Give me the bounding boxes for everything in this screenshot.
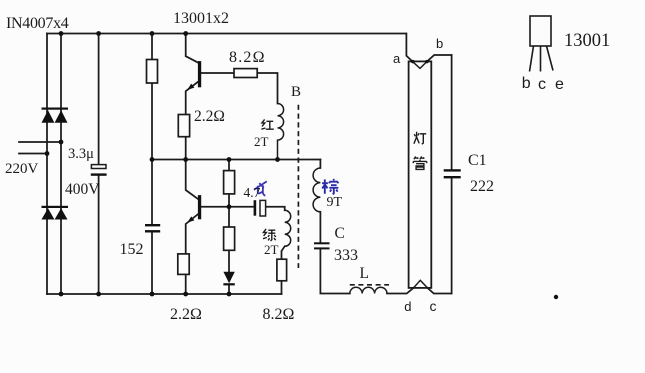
winding brown 9T xyxy=(313,168,320,212)
wire green winding to 8.2ohm resistor xyxy=(282,246,285,259)
resistor bias lower xyxy=(224,227,235,250)
wire startup resistor column xyxy=(151,34,153,295)
wire filter cap column xyxy=(98,34,100,295)
winding red 2T xyxy=(278,104,284,160)
wire bias divider column lower xyxy=(228,250,230,271)
resistor 8.2 ohm lower xyxy=(277,259,287,281)
wire AC input line top xyxy=(19,141,61,143)
wire diode to bus xyxy=(228,285,230,295)
capacitor C 333 xyxy=(314,242,330,249)
capacitor 152 xyxy=(145,224,160,233)
wire bridge right leg xyxy=(60,34,62,295)
lamp tube body xyxy=(409,61,432,288)
wire lamp c diagonal xyxy=(428,288,452,294)
text labels xyxy=(6,15,68,33)
lamp filament top xyxy=(412,61,427,68)
wire bottom DC- bus xyxy=(47,293,282,295)
bridge diodes D1 D2 (top pair) xyxy=(42,108,69,123)
wire L to lamp d xyxy=(387,288,414,294)
transformer core B dashed line xyxy=(297,105,299,268)
wire Q1 collector xyxy=(186,34,199,63)
wire Q2 emitter resistor to bus xyxy=(185,274,187,294)
inductor L xyxy=(350,287,387,293)
wire bias divider column top xyxy=(228,160,230,171)
wire brown winding to C333 xyxy=(319,212,321,242)
transistor Q1 13001 xyxy=(187,61,201,90)
resistor 2.2 ohm upper (Q1 emitter) xyxy=(178,115,189,137)
wire lamp terminal a drop xyxy=(406,34,412,62)
wire Q1 emitter resistor to node xyxy=(185,137,187,160)
capacitor 3.3u 400V (electrolytic) xyxy=(91,165,107,176)
diode D5 (base discharge) xyxy=(223,272,234,286)
resistor 8.2 ohm top xyxy=(234,69,257,78)
transistor package 13001 (top right) xyxy=(530,16,554,72)
wire AC input line bottom xyxy=(19,153,47,155)
capacitor C1 222 xyxy=(444,169,461,178)
wire Q2 collector xyxy=(186,160,199,200)
Chinese glyph: hong (red) xyxy=(261,119,273,129)
Chinese glyph: guan (tube) xyxy=(413,157,426,170)
inductor L core dashes xyxy=(350,284,389,286)
wire bridge left leg xyxy=(46,34,48,295)
wire cap to green winding xyxy=(266,207,285,211)
resistor bias upper xyxy=(224,171,235,194)
resistor startup (unlabeled) xyxy=(147,60,158,84)
wire Q2 base line xyxy=(201,206,254,208)
resistor 2.2 ohm lower (Q2 emitter) xyxy=(178,254,189,275)
capacitor 4.7n coupling xyxy=(254,200,266,216)
wire Q1 base to 8.2ohm xyxy=(201,72,234,74)
winding green 2T xyxy=(285,210,291,246)
wire brown winding drop xyxy=(319,160,321,169)
wire C333 to bottom right line xyxy=(320,249,349,293)
wire top DC+ bus xyxy=(47,33,406,35)
wire lamp b diagonal xyxy=(427,55,452,61)
wire Q1 emitter xyxy=(186,82,199,115)
lamp filament bottom xyxy=(414,280,428,288)
Chinese glyph: deng (lamp) xyxy=(414,132,426,144)
blue mu scribble after 4.7 xyxy=(254,181,267,195)
bridge diodes D3 D4 (bottom pair) xyxy=(42,206,69,220)
Chinese glyph: zong (brown, blue pen) xyxy=(322,179,338,194)
wire 8.2ohm resistor to bus end xyxy=(281,281,283,294)
wire bias divider column mid xyxy=(228,194,230,227)
stray ink dot xyxy=(554,295,558,299)
Chinese glyph: lv (green) xyxy=(263,229,276,241)
transistor Q2 13001 xyxy=(187,195,201,223)
wire mid node line xyxy=(152,159,320,161)
wire 8.2ohm to red winding xyxy=(257,73,277,104)
wire C1 column xyxy=(451,55,453,294)
wire Q2 emitter xyxy=(186,214,199,254)
